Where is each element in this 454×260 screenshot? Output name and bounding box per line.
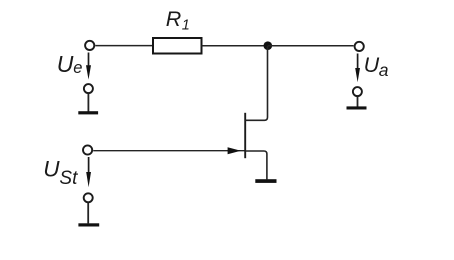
svg-text:R: R <box>166 7 182 31</box>
terminal Ue <box>85 41 94 50</box>
wire gate: USt terminal to transistor T1 gate <box>93 150 244 152</box>
wire node A to Ua terminal <box>268 45 354 47</box>
svg-text:e: e <box>73 59 82 77</box>
ground (transistor source) <box>255 179 276 183</box>
wire stub to ground (Ua) <box>357 97 359 107</box>
svg-text:U: U <box>57 51 74 77</box>
ground (USt) <box>78 223 99 226</box>
voltage arrow Ue <box>88 53 90 68</box>
terminal USt <box>83 145 92 154</box>
ground (Ue) <box>78 111 98 114</box>
transistor T1 channel bar <box>244 113 246 158</box>
voltage arrow USt <box>88 157 90 174</box>
gate arrowhead of transistor T1 <box>228 147 241 154</box>
transistor T1 drain lead, wire node A down to channel <box>245 46 267 121</box>
wire stub to ground (Ue) <box>87 94 89 112</box>
wire R1 to node A <box>202 45 268 47</box>
lower terminal circle under Ue <box>84 84 93 93</box>
wire stub to ground (USt) <box>87 203 89 224</box>
voltage arrow Ua <box>357 54 359 70</box>
resistor R1 <box>153 38 202 54</box>
wire Ue terminal to R1 <box>95 45 153 47</box>
terminal Ua <box>355 42 364 51</box>
svg-text:1: 1 <box>182 17 190 33</box>
svg-text:U: U <box>43 157 60 182</box>
svg-text:U: U <box>364 53 380 77</box>
svg-text:a: a <box>379 60 389 80</box>
svg-text:St: St <box>59 168 78 189</box>
lower terminal circle under USt <box>84 193 93 202</box>
transistor T1 source lead, wire down to ground <box>245 151 267 179</box>
lower terminal circle under Ua <box>353 87 362 96</box>
ground (Ua) <box>347 106 367 109</box>
node A junction dot <box>264 41 273 50</box>
